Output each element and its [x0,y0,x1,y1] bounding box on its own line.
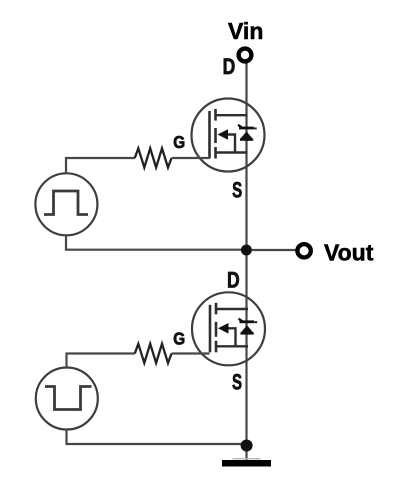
svg-text:S: S [232,179,242,204]
svg-text:G: G [173,328,185,348]
svg-text:Vin: Vin [228,18,263,44]
svg-text:S: S [232,371,242,396]
svg-text:D: D [227,269,240,294]
svg-text:G: G [173,132,185,152]
svg-text:D: D [223,55,236,80]
svg-text:Vout: Vout [324,240,374,266]
